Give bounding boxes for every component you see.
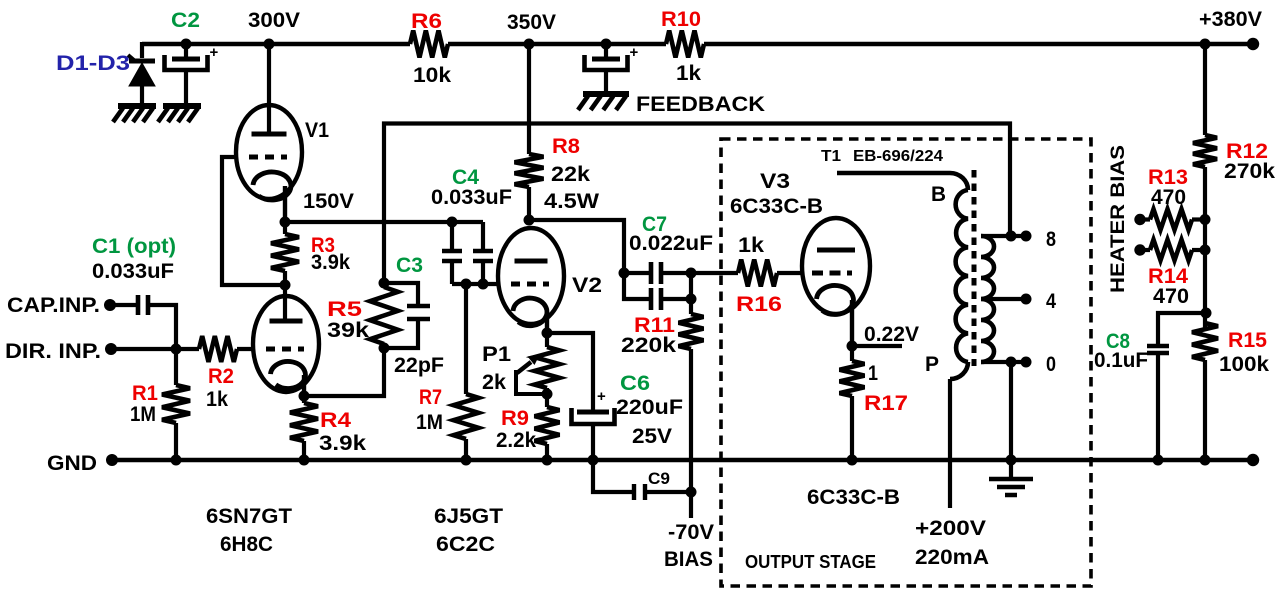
svg-text:220mA: 220mA [915, 546, 989, 569]
transformer T1 core [972, 170, 977, 366]
svg-text:R6: R6 [411, 10, 442, 33]
svg-text:FEEDBACK: FEEDBACK [636, 93, 765, 116]
wire 150V node to C4 [285, 220, 483, 224]
terminal +380V [1247, 38, 1259, 50]
wire 300V to V1 anode [267, 44, 271, 134]
svg-text:350V: 350V [507, 11, 556, 34]
terminal R13 left [1134, 214, 1145, 225]
wire V3 anode to transformer B [837, 171, 950, 176]
node C7 right top [686, 268, 697, 279]
svg-text:GND: GND [47, 452, 97, 475]
svg-text:6C33C-B: 6C33C-B [807, 486, 900, 509]
resistor R10 [666, 31, 704, 58]
capacitor C4a [450, 222, 454, 251]
svg-text:B: B [931, 183, 946, 206]
node V2 cathode [542, 328, 553, 339]
wire P lead to +200V [950, 362, 968, 379]
wire R5/C3 bottom to cathode node [304, 348, 384, 396]
resistor R12 [1193, 135, 1217, 167]
svg-text:0.033uF: 0.033uF [431, 186, 512, 209]
svg-text:+: + [597, 388, 606, 405]
svg-text:R9: R9 [501, 407, 529, 430]
node 150V [280, 217, 291, 228]
svg-text:6C2C: 6C2C [436, 533, 495, 556]
node C4 top [447, 217, 458, 228]
node tap 8 feedback junction [1006, 231, 1017, 242]
node C4b bottom [478, 279, 489, 290]
svg-text:25V: 25V [632, 425, 672, 448]
svg-text:150V: 150V [303, 190, 354, 213]
dashed box output stage [721, 139, 1091, 586]
node R1 bottom [171, 455, 182, 466]
svg-text:8: 8 [1046, 228, 1056, 251]
wire rail to D1-D3 [140, 42, 144, 58]
capacitor C7b [624, 273, 649, 299]
svg-text:1k: 1k [676, 62, 701, 85]
svg-text:0: 0 [1046, 353, 1056, 376]
svg-text:OUTPUT STAGE: OUTPUT STAGE [745, 552, 876, 572]
capacitor C5 [604, 46, 608, 59]
wire tap 0 to ground [1009, 362, 1013, 478]
svg-text:220uF: 220uF [616, 396, 683, 419]
svg-text:+: + [210, 44, 219, 61]
svg-text:2k: 2k [482, 371, 506, 394]
wire junction to V1b anode [283, 285, 287, 321]
svg-text:6C33C-B: 6C33C-B [730, 195, 823, 218]
svg-text:R8: R8 [552, 135, 580, 158]
node R9 bottom [542, 455, 553, 466]
node C9 right [686, 487, 697, 498]
node C6/C9 junction [588, 455, 599, 466]
svg-text:0.022uF: 0.022uF [629, 232, 713, 255]
node +380V branch [1200, 39, 1211, 50]
svg-text:V3: V3 [760, 170, 790, 193]
wire tap 4 [981, 297, 1030, 301]
svg-text:C3: C3 [396, 254, 423, 277]
svg-text:10k: 10k [413, 64, 451, 87]
node C2 junction [181, 39, 192, 50]
svg-text:470: 470 [1151, 186, 1186, 209]
svg-text:R15: R15 [1228, 329, 1267, 352]
svg-text:300V: 300V [248, 9, 300, 32]
svg-text:+380V: +380V [1199, 8, 1262, 31]
svg-text:R16: R16 [736, 293, 782, 316]
wire top supply rail [142, 42, 1256, 47]
resistor R7 [464, 284, 468, 394]
svg-text:470: 470 [1153, 285, 1189, 308]
svg-text:1k: 1k [206, 388, 228, 411]
svg-text:100k: 100k [1219, 353, 1269, 376]
node R14 right [1200, 245, 1211, 256]
diode D1-D3 [128, 55, 135, 61]
svg-text:R5: R5 [327, 298, 362, 321]
svg-text:C6: C6 [620, 372, 650, 395]
svg-text:1M: 1M [416, 411, 443, 434]
svg-text:R7: R7 [419, 386, 442, 409]
node tap 8 terminal [1021, 231, 1032, 242]
node R17 bottom [847, 455, 858, 466]
wire DIR.INP to R2 [111, 347, 199, 351]
node tap 0 junction [1006, 357, 1017, 368]
svg-text:1: 1 [868, 362, 878, 385]
svg-text:22k: 22k [551, 163, 590, 186]
node V3 cathode [847, 341, 858, 352]
resistor R9 [545, 394, 549, 407]
node R5/C3 bottom [379, 343, 390, 354]
wire tap 8 [981, 234, 1030, 238]
node R15 bottom [1200, 455, 1211, 466]
resistor R11 [679, 314, 704, 349]
svg-text:270k: 270k [1224, 160, 1275, 183]
wire 0.22V stub [852, 344, 902, 348]
svg-text:BIAS: BIAS [664, 548, 713, 571]
resistor R8 [527, 44, 531, 154]
svg-text:6H8C: 6H8C [220, 533, 273, 556]
svg-text:220k: 220k [621, 334, 676, 357]
capacitor C9 [593, 460, 632, 492]
resistor R2 [199, 336, 237, 362]
svg-text:C1 (opt): C1 (opt) [92, 235, 176, 258]
wire V1 grid to lower anode node [222, 157, 285, 285]
node R4 bottom [299, 455, 310, 466]
capacitor C1 [110, 303, 136, 307]
svg-text:6SN7GT: 6SN7GT [206, 505, 292, 528]
svg-text:R1: R1 [132, 382, 158, 405]
svg-text:HEATER BIAS: HEATER BIAS [1108, 145, 1129, 293]
capacitor C7a [624, 271, 649, 275]
resistor R6 [410, 31, 448, 58]
ground (C5) [583, 91, 629, 97]
capacitor C4b [481, 222, 485, 251]
capacitor C3 [384, 283, 418, 306]
node R5/C3 top [379, 278, 390, 289]
svg-text:0.22V: 0.22V [864, 323, 919, 346]
svg-text:V2: V2 [572, 274, 602, 297]
wire R11 to -70V [689, 349, 693, 518]
svg-text:R2: R2 [208, 365, 234, 388]
ground (C2) [163, 103, 201, 109]
node transformer 0 ground [1006, 455, 1017, 466]
node R13 right [1200, 214, 1211, 225]
node C8 bottom [1153, 455, 1164, 466]
svg-text:R4: R4 [320, 409, 351, 432]
capacitor C6 [591, 409, 595, 412]
svg-text:C2: C2 [171, 9, 200, 32]
wire ground rail [112, 458, 1256, 463]
svg-text:-70V: -70V [668, 521, 714, 544]
svg-text:4.5W: 4.5W [544, 190, 599, 213]
tube V1 [236, 105, 302, 199]
svg-text:EB-696/224: EB-696/224 [853, 148, 943, 165]
wire cathode to C6 [547, 333, 593, 409]
wire R16 to V3 grid [777, 271, 803, 275]
svg-text:D1-D3: D1-D3 [56, 52, 130, 75]
tube V1b (6SN7 second half) [253, 296, 319, 392]
terminal CAP.INP. [104, 299, 116, 311]
resistor R17 [850, 346, 854, 361]
wire R2 to V1b grid [237, 347, 254, 351]
resistor R1 [174, 349, 178, 385]
resistor R15 [1192, 323, 1218, 360]
node R7 top [461, 279, 472, 290]
svg-text:1k: 1k [738, 234, 764, 257]
svg-text:P: P [925, 353, 939, 376]
terminal GND [106, 454, 118, 466]
svg-text:1M: 1M [130, 403, 156, 426]
resistor R5 [382, 283, 386, 287]
svg-text:+200V: +200V [915, 517, 986, 540]
tube V3 [802, 218, 870, 314]
svg-text:4: 4 [1046, 290, 1056, 313]
capacitor C2 [184, 46, 188, 59]
svg-text:T1: T1 [821, 148, 841, 165]
svg-text:6J5GT: 6J5GT [434, 505, 503, 528]
node V2 anode junction [524, 215, 535, 226]
svg-text:CAP.INP.: CAP.INP. [7, 294, 100, 317]
resistor R13 [1140, 217, 1150, 221]
svg-text:3.9k: 3.9k [311, 251, 350, 274]
node P1/R9 junction [542, 389, 553, 400]
node R3 bottom junction [280, 280, 291, 291]
svg-text:0.033uF: 0.033uF [92, 260, 174, 283]
node C7 right bottom [686, 294, 697, 305]
wire C7 to R16 [691, 271, 738, 275]
terminal R14 left [1134, 244, 1145, 255]
node C5 junction [601, 39, 612, 50]
resistor R14 [1140, 248, 1150, 252]
svg-text:2.2k: 2.2k [496, 429, 536, 452]
svg-text:P1: P1 [482, 343, 511, 366]
node V1b cathode [299, 391, 310, 402]
svg-text:22pF: 22pF [394, 354, 444, 377]
resistor R16 [738, 260, 777, 287]
node 350V [524, 39, 535, 50]
svg-text:R17: R17 [864, 392, 908, 415]
wire V2 anode to C7 [529, 220, 624, 273]
resistor R3 [283, 222, 287, 234]
svg-text:DIR. INP.: DIR. INP. [5, 340, 101, 363]
svg-text:3.9k: 3.9k [319, 432, 366, 455]
node C1/R1 junction [171, 344, 182, 355]
node R7 bottom [461, 455, 472, 466]
node 300V [264, 39, 275, 50]
node C7 left [619, 268, 630, 279]
node tap 4 terminal [1021, 294, 1032, 305]
wire tap 0 [981, 360, 1030, 364]
ground (output, IEC) [989, 479, 1033, 495]
node C8 branch [1201, 308, 1212, 319]
svg-text:+: + [630, 44, 639, 61]
transformer T1 secondary [981, 236, 994, 362]
potentiometer P1 [535, 347, 560, 388]
svg-text:0.1uF: 0.1uF [1094, 349, 1148, 372]
wire negative feedback line [384, 124, 1010, 284]
wire +380V column [1203, 44, 1207, 135]
svg-text:C9: C9 [648, 469, 670, 488]
ground (D1-D3) [118, 103, 156, 109]
svg-text:V1: V1 [305, 119, 329, 142]
terminal DIR. INP. [105, 343, 117, 355]
capacitor C8 [1158, 313, 1205, 344]
transformer T1 primary [956, 190, 968, 362]
terminal ground rail right [1247, 454, 1259, 466]
node tap 0 terminal [1021, 357, 1032, 368]
wire C4 bottom to V2 grid [452, 282, 499, 286]
wiper P1 [516, 370, 547, 394]
svg-text:39k: 39k [327, 319, 369, 342]
svg-text:R10: R10 [661, 8, 701, 31]
tube V2 [498, 228, 564, 324]
resistor R4 [302, 396, 306, 403]
